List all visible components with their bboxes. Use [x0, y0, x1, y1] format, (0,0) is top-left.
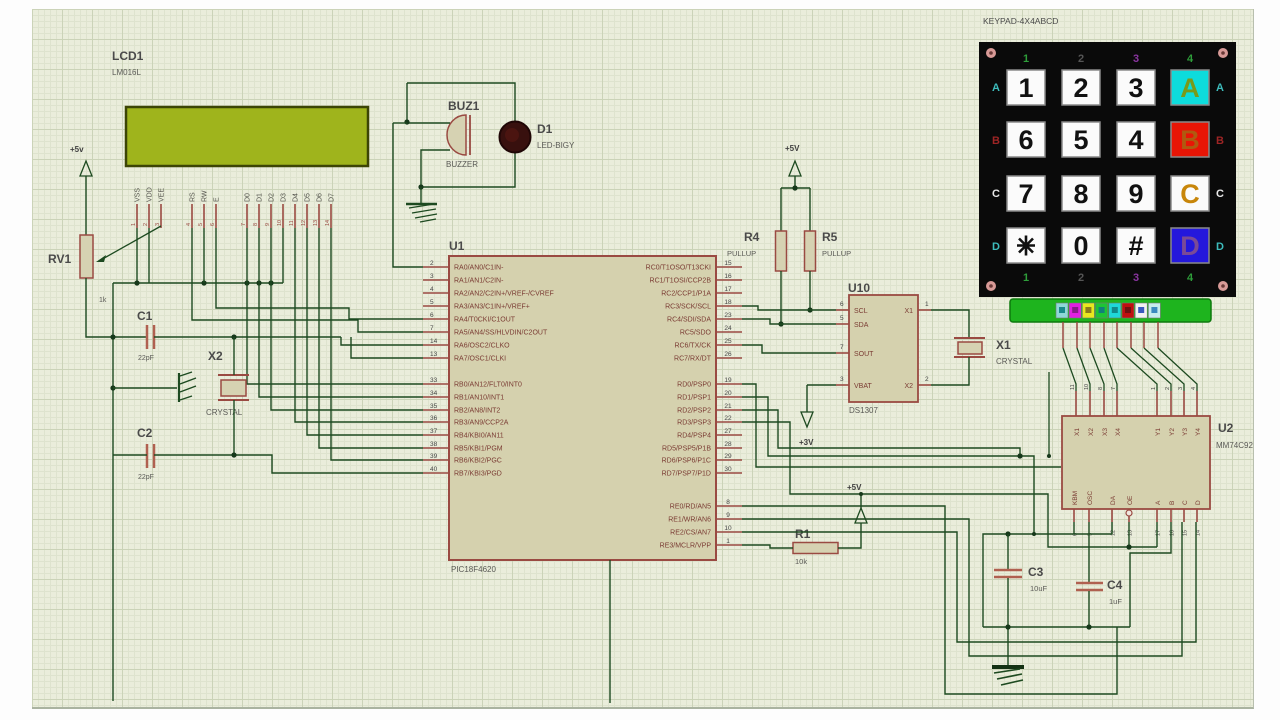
svg-text:D2: D2 [269, 193, 276, 202]
LCD1 pin 8 stub [258, 204, 260, 228]
wire U1 RC4 to U10 SDA [742, 319, 836, 324]
ground (left of X2) [113, 387, 177, 389]
R4 resistor body [776, 231, 787, 271]
keypad body [979, 42, 1236, 297]
wire LCD D4 to U1 RB3 [295, 228, 423, 422]
svg-text:RB1/AN10/INT1: RB1/AN10/INT1 [454, 395, 504, 402]
junction RD1 net [1032, 532, 1036, 536]
wire LCD D3 riser [282, 228, 284, 283]
svg-text:RW: RW [202, 190, 209, 202]
U1 left pin 33 (RB0/AN12/FLT0/INT0) [423, 383, 449, 385]
svg-text:A: A [992, 82, 1000, 94]
svg-text:CRYSTAL: CRYSTAL [206, 408, 243, 417]
wire U1 RE2 to U2 D [742, 522, 1196, 642]
wire LCD D2 to U1 RB2 [271, 228, 423, 410]
U2 top pin Y2 [1170, 391, 1172, 416]
U1 left pin 36 (RB3/AN9/CCP2A) [423, 421, 449, 423]
U1 right pin 18 (RC3/SCK/SCL) [716, 305, 742, 307]
connector pin 7 [1143, 322, 1145, 348]
wire +5v to RV1 [85, 176, 87, 235]
connector wire tag 8 [1148, 303, 1160, 318]
svg-text:RV1: RV1 [48, 252, 71, 266]
svg-text:#: # [1128, 231, 1143, 261]
wire U10 X1 to crystal [931, 310, 969, 338]
svg-text:Y2: Y2 [1169, 428, 1176, 436]
LCD1 pin 5 stub [203, 204, 205, 228]
U1 right pin 1 (RE3/MCLR/VPP) [716, 544, 742, 546]
svg-text:C: C [1180, 179, 1200, 209]
R1 resistor body [793, 543, 838, 554]
LCD1 pin 14 stub [330, 204, 332, 228]
svg-text:2: 2 [1078, 272, 1084, 284]
U10 pin 2 X2 [918, 384, 931, 386]
svg-text:B: B [1180, 125, 1200, 155]
keypad corner screw [1218, 48, 1228, 58]
svg-text:RB2/AN8/INT2: RB2/AN8/INT2 [454, 408, 500, 415]
svg-text:8: 8 [1098, 387, 1104, 390]
svg-text:RD1/PSP1: RD1/PSP1 [677, 395, 711, 402]
junction buzzer-gnd [418, 184, 423, 189]
connector pin 4 [1103, 322, 1105, 348]
svg-text:4: 4 [1191, 387, 1197, 390]
U10 pin 5 SDA [836, 323, 849, 325]
connector wire tag 5 [1109, 303, 1121, 318]
svg-text:D1: D1 [537, 122, 553, 136]
svg-text:RE1/WR/AN6: RE1/WR/AN6 [668, 517, 711, 524]
wire buzzer top-left [407, 83, 450, 123]
wire U1 RD2 to +3V rail [742, 410, 1020, 456]
svg-text:25: 25 [724, 338, 732, 345]
keypad key 5 [1062, 122, 1100, 157]
U10 pin 6 SCL [836, 309, 849, 311]
svg-text:PIC18F4620: PIC18F4620 [451, 565, 496, 574]
svg-text:Y4: Y4 [1195, 428, 1202, 436]
svg-text:7: 7 [1111, 387, 1117, 390]
svg-text:X1: X1 [996, 338, 1011, 352]
connector wire tag 3 [1082, 303, 1094, 318]
wire C3 bottom lead [1007, 578, 1009, 666]
svg-text:D5: D5 [305, 193, 312, 202]
keypad key 9 [1117, 176, 1155, 211]
wire U2 OE down [1128, 522, 1130, 547]
svg-text:PULLUP: PULLUP [822, 249, 851, 258]
svg-text:8: 8 [726, 499, 730, 506]
junction OE rail [1126, 544, 1131, 549]
svg-text:3: 3 [1133, 53, 1139, 65]
wire buzzer bottom [421, 150, 515, 187]
keypad key 0 [1062, 228, 1100, 263]
svg-text:4: 4 [430, 286, 434, 293]
U1 left pin 34 (RB1/AN10/INT1) [423, 396, 449, 398]
svg-text:RD4/PSP4: RD4/PSP4 [677, 433, 711, 440]
LCD1 pin 7 stub [246, 204, 248, 228]
wire U2 KBM down [1073, 522, 1075, 534]
wire connector pin 3 to U2 [1090, 348, 1104, 391]
wire RV1 bottom to C1 row [86, 278, 146, 337]
RV1 potentiometer body [80, 235, 93, 278]
junction C1-X2 [231, 334, 236, 339]
svg-text:3: 3 [1133, 272, 1139, 284]
junction C2-X2 [231, 452, 236, 457]
U1 right pin 15 (RC0/T1OSO/T13CKI) [716, 266, 742, 268]
junction D1-bus [256, 280, 261, 285]
LCD1 pin 13 stub [318, 204, 320, 228]
keypad corner screw [986, 281, 996, 291]
wire buzzer left link [393, 122, 407, 124]
svg-text:+5v: +5v [70, 145, 84, 154]
U1 left pin 2 (RA0/AN0/C1IN-) [423, 266, 449, 268]
U1 right pin 27 (RD4/PSP4) [716, 434, 742, 436]
wire bus left drop [112, 283, 114, 701]
wire LCD E to U1 [216, 228, 423, 319]
U10 pin 7 SOUT [836, 352, 849, 354]
wire buzzer left drop to U1 RA0 [393, 123, 423, 267]
wire U1 RC3 to U10 SCL [742, 306, 836, 310]
svg-text:7: 7 [840, 344, 844, 351]
svg-text:18: 18 [724, 299, 732, 306]
svg-text:27: 27 [724, 428, 732, 435]
svg-text:17: 17 [724, 286, 732, 293]
U2 bottom pin KBM [1073, 509, 1075, 522]
svg-text:2: 2 [143, 223, 149, 226]
svg-text:X1: X1 [1074, 428, 1081, 436]
svg-text:21: 21 [724, 403, 732, 410]
svg-text:8: 8 [253, 223, 259, 226]
svg-text:D7: D7 [329, 193, 336, 202]
svg-text:1: 1 [1018, 73, 1033, 103]
svg-text:MM74C92: MM74C92 [1216, 441, 1253, 450]
R5 resistor body [805, 231, 816, 271]
svg-text:6: 6 [430, 312, 434, 319]
svg-text:9: 9 [726, 512, 730, 519]
LCD1 pin 10 stub [282, 204, 284, 228]
wire connector pin 6 to U2 [1131, 348, 1171, 391]
connector wire tag 7 [1135, 303, 1147, 318]
keypad key C [1171, 176, 1209, 211]
+5V arrow terminal (bottom) [855, 508, 867, 523]
svg-text:X3: X3 [1102, 428, 1109, 436]
svg-text:RB7/KBI3/PGD: RB7/KBI3/PGD [454, 471, 502, 478]
svg-text:VEE: VEE [159, 188, 166, 202]
svg-text:U2: U2 [1218, 421, 1234, 435]
svg-text:6: 6 [1018, 125, 1033, 155]
U1 left pin 14 (RA6/OSC2/CLKO) [423, 344, 449, 346]
svg-text:2: 2 [1073, 73, 1088, 103]
wire under U1 [609, 560, 611, 703]
wire C3 top net [983, 534, 1112, 627]
svg-text:RD6/PSP6/P1C: RD6/PSP6/P1C [662, 458, 711, 465]
svg-text:RD5/PSP5/P1B: RD5/PSP5/P1B [662, 446, 711, 453]
U1 left pin 13 (RA7/OSC1/CLKI) [423, 357, 449, 359]
connector wire tag 1 [1056, 303, 1068, 318]
svg-text:2: 2 [430, 260, 434, 267]
keypad corner screw [986, 48, 996, 58]
keypad key B [1171, 122, 1209, 157]
LCD1 pin 11 stub [294, 204, 296, 228]
svg-text:22pF: 22pF [138, 355, 154, 362]
svg-text:11: 11 [289, 220, 295, 226]
wire U1 RE3 to R1 [742, 545, 793, 548]
svg-text:SOUT: SOUT [854, 351, 874, 358]
svg-text:RD7/PSP7/P1D: RD7/PSP7/P1D [662, 471, 711, 478]
U1 right pin 29 (RD6/PSP6/P1C) [716, 459, 742, 461]
svg-text:10: 10 [277, 220, 283, 226]
svg-text:D6: D6 [317, 193, 324, 202]
svg-text:10uF: 10uF [1030, 584, 1048, 593]
LCD1 pin 1 stub [136, 204, 138, 228]
svg-text:RC2/CCP1/P1A: RC2/CCP1/P1A [661, 291, 711, 298]
svg-text:23: 23 [724, 312, 732, 319]
wire connector pin 4 to U2 [1104, 348, 1117, 391]
svg-text:39: 39 [430, 453, 438, 460]
svg-text:RB4/KBI0/AN11: RB4/KBI0/AN11 [454, 433, 504, 440]
svg-text:D: D [1195, 500, 1202, 505]
U2 bottom pin OSC [1088, 509, 1090, 522]
U1 left pin 7 (RA5/AN4/SS/HLVDIN/C2OUT) [423, 331, 449, 333]
svg-text:X4: X4 [1115, 428, 1122, 436]
C1 capacitor plates [147, 325, 154, 349]
LCD1 pin 4 stub [191, 204, 193, 228]
junction bus-gnd [110, 385, 115, 390]
wire X2 top lead [233, 337, 235, 375]
D1 LED body [500, 122, 531, 153]
svg-text:RA4/T0CKI/C1OUT: RA4/T0CKI/C1OUT [454, 317, 516, 324]
keypad key # [1117, 228, 1155, 263]
U2 bottom pin OE [1128, 509, 1130, 510]
svg-text:RC1/T1OSI/CCP2B: RC1/T1OSI/CCP2B [650, 278, 712, 285]
svg-text:RC0/T1OSO/T13CKI: RC0/T1OSO/T13CKI [646, 265, 711, 272]
svg-text:22pF: 22pF [138, 474, 154, 481]
junction C4 bottom [1086, 624, 1091, 629]
U1 left pin 38 (RB5/KBI1/PGM) [423, 447, 449, 449]
svg-text:RB6/KBI2/PGC: RB6/KBI2/PGC [454, 458, 502, 465]
svg-text:13: 13 [313, 220, 319, 226]
svg-text:OE: OE [1127, 495, 1134, 505]
wire U1 RE1 to U2 C [742, 519, 1182, 656]
svg-text:VDD: VDD [147, 187, 154, 202]
svg-text:A: A [1216, 82, 1224, 94]
U10 pin 1 X1 [918, 309, 931, 311]
U1 left pin 6 (RA4/T0CKI/C1OUT) [423, 318, 449, 320]
svg-text:D: D [1180, 231, 1200, 261]
svg-text:11: 11 [1070, 384, 1076, 390]
svg-text:E: E [214, 197, 221, 202]
ground (bottom right) [992, 665, 1024, 669]
keypad corner screw [1218, 281, 1228, 291]
svg-text:RE2/CS/AN7: RE2/CS/AN7 [670, 530, 711, 537]
wire R4 top [780, 188, 782, 231]
U2 top pin X4 [1116, 391, 1118, 416]
wire LCD ground bus [113, 282, 283, 284]
junction R4-SDA [778, 321, 783, 326]
svg-text:X1: X1 [904, 308, 913, 315]
svg-text:5: 5 [430, 299, 434, 306]
svg-text:CRYSTAL: CRYSTAL [996, 357, 1033, 366]
svg-text:20: 20 [724, 390, 732, 397]
keypad connector strip [1010, 299, 1211, 322]
wire LCD D1 to U1 RB1 [259, 228, 423, 397]
BUZ1 buzzer body [447, 115, 466, 155]
U2 bottom pin D [1196, 509, 1198, 522]
junction buzzer-left [404, 119, 409, 124]
wire crystal to U10 X2 [931, 357, 969, 385]
svg-text:RC5/SDO: RC5/SDO [680, 330, 712, 337]
U1 PIC18F4620 body [449, 256, 716, 560]
svg-text:2: 2 [1165, 387, 1171, 390]
svg-text:KBM: KBM [1072, 491, 1079, 505]
keypad key 2 [1062, 70, 1100, 105]
svg-text:RB5/KBI1/PGM: RB5/KBI1/PGM [454, 446, 503, 453]
keypad key 4 [1117, 122, 1155, 157]
wire connector pin 8 to U2 [1158, 348, 1197, 391]
wire C3 top lead [1007, 534, 1009, 569]
svg-text:D3: D3 [281, 193, 288, 202]
junction R5-SCL [807, 307, 812, 312]
svg-text:D4: D4 [293, 193, 300, 202]
svg-text:KEYPAD-4X4ABCD: KEYPAD-4X4ABCD [983, 16, 1058, 26]
svg-text:LM016L: LM016L [112, 68, 141, 77]
junction rail merge [1017, 453, 1022, 458]
wire LCD VSS down [136, 228, 138, 283]
svg-text:VBAT: VBAT [854, 383, 872, 390]
U1 right pin 20 (RD1/PSP1) [716, 396, 742, 398]
U2 body [1062, 416, 1210, 509]
LCD1 pin 6 stub [215, 204, 217, 228]
svg-text:7: 7 [241, 223, 247, 226]
svg-text:1k: 1k [99, 297, 107, 304]
C3 capacitor plates [994, 570, 1022, 577]
svg-text:RA6/OSC2/CLKO: RA6/OSC2/CLKO [454, 343, 510, 350]
svg-text:D0: D0 [245, 193, 252, 202]
svg-text:15: 15 [724, 260, 732, 267]
keypad key 3 [1117, 70, 1155, 105]
svg-text:33: 33 [430, 377, 438, 384]
junction fan stub [1047, 454, 1051, 458]
svg-text:R1: R1 [795, 527, 811, 541]
U1 right pin 30 (RD7/PSP7/P1D) [716, 472, 742, 474]
svg-text:U10: U10 [848, 281, 870, 295]
keypad key 7 [1007, 176, 1045, 211]
U1 left pin 4 (RA2/AN2/C2IN+/VREF-/CVREF) [423, 292, 449, 294]
svg-text:RC6/TX/CK: RC6/TX/CK [674, 343, 711, 350]
svg-text:10k: 10k [795, 557, 807, 566]
svg-text:LCD1: LCD1 [112, 49, 144, 63]
keypad key 8 [1062, 176, 1100, 211]
wire U2 DA down [1111, 522, 1113, 534]
RV1 wiper arrow [99, 226, 161, 261]
svg-text:3: 3 [155, 223, 161, 226]
svg-text:B: B [1169, 501, 1176, 505]
svg-text:4: 4 [1187, 272, 1194, 284]
U1 right pin 16 (RC1/T1OSI/CCP2B) [716, 279, 742, 281]
svg-text:1uF: 1uF [1109, 597, 1122, 606]
svg-text:RA1/AN1/C2IN-: RA1/AN1/C2IN- [454, 278, 504, 285]
svg-text:3: 3 [430, 273, 434, 280]
svg-text:B: B [1216, 135, 1224, 147]
U1 right pin 19 (RD0/PSP0) [716, 383, 742, 385]
U1 left pin 3 (RA1/AN1/C2IN-) [423, 279, 449, 281]
U2 top pin Y4 [1196, 391, 1198, 416]
svg-text:38: 38 [430, 441, 438, 448]
svg-text:RB0/AN12/FLT0/INT0: RB0/AN12/FLT0/INT0 [454, 382, 522, 389]
U2 top pin X2 [1089, 391, 1091, 416]
svg-text:RA3/AN3/C1IN+/VREF+: RA3/AN3/C1IN+/VREF+ [454, 304, 530, 311]
LCD1 pin 3 stub [160, 204, 162, 228]
svg-text:7: 7 [430, 325, 434, 332]
U1 left pin 40 (RB7/KBI3/PGD) [423, 472, 449, 474]
svg-text:22: 22 [724, 415, 732, 422]
svg-text:6: 6 [840, 301, 844, 308]
junction D2-bus [268, 280, 273, 285]
connector pin 2 [1076, 322, 1078, 348]
wire U1 RD3 to +5V rail [742, 422, 1157, 547]
wire X2 to U1 OSC2 [341, 337, 423, 345]
U2 top pin X1 [1075, 391, 1077, 416]
svg-text:RE0/RD/AN5: RE0/RD/AN5 [670, 504, 711, 511]
svg-text:7: 7 [1018, 179, 1033, 209]
connector pin 1 [1062, 322, 1064, 348]
wire R5 bottom to SCL [809, 271, 811, 310]
svg-text:4: 4 [1128, 125, 1143, 155]
svg-text:16: 16 [724, 273, 732, 280]
U1 right pin 28 (RD5/PSP5/P1B) [716, 447, 742, 449]
svg-text:1: 1 [726, 538, 730, 545]
svg-text:26: 26 [724, 351, 732, 358]
wire X2 bottom lead [233, 400, 235, 455]
svg-text:19: 19 [724, 377, 732, 384]
svg-text:PULLUP: PULLUP [727, 249, 756, 258]
svg-text:37: 37 [430, 428, 438, 435]
U2 bottom pin A [1156, 509, 1158, 522]
svg-text:RA2/AN2/C2IN+/VREF-/CVREF: RA2/AN2/C2IN+/VREF-/CVREF [454, 291, 554, 298]
U2 bottom pin DA [1111, 509, 1113, 522]
svg-text:OSC: OSC [1087, 491, 1094, 505]
svg-text:1: 1 [1023, 272, 1029, 284]
svg-text:1: 1 [925, 301, 929, 308]
svg-text:2: 2 [1078, 53, 1084, 65]
svg-text:29: 29 [724, 453, 732, 460]
wire connector pin 5 to U2 [1117, 348, 1157, 391]
svg-text:VSS: VSS [135, 188, 142, 202]
keypad key 1 [1007, 70, 1045, 105]
C4 capacitor plates [1076, 583, 1103, 590]
wire +5V to R4 R5 [794, 176, 796, 188]
svg-text:SCL: SCL [854, 308, 868, 315]
wire LCD RW down [203, 228, 205, 283]
U1 left pin 37 (RB4/KBI0/AN11) [423, 434, 449, 436]
junction D0-bus [244, 280, 249, 285]
svg-text:BUZZER: BUZZER [446, 160, 478, 169]
svg-text:RC7/RX/DT: RC7/RX/DT [674, 356, 712, 363]
svg-text:U1: U1 [449, 239, 465, 253]
svg-text:RC4/SDI/SDA: RC4/SDI/SDA [667, 317, 711, 324]
ground (below buzzer) [406, 203, 437, 205]
U2 bottom pin C [1183, 509, 1185, 522]
svg-text:D: D [1216, 241, 1224, 253]
wire U1 RD1 long to U2 area [742, 397, 1034, 534]
wire LCD D0 to U1 RB0 [247, 228, 423, 384]
svg-text:5: 5 [840, 315, 844, 322]
wire connector pin 1 to U2 [1063, 348, 1076, 391]
X1 crystal symbol [954, 338, 985, 357]
svg-text:RB3/AN9/CCP2A: RB3/AN9/CCP2A [454, 420, 509, 427]
wire fan stub down [1048, 372, 1050, 456]
U1 right pin 9 (RE1/WR/AN6) [716, 518, 742, 520]
keypad key 6 [1007, 122, 1045, 157]
wire U2 A down [1156, 522, 1158, 547]
svg-text:B: B [992, 135, 1000, 147]
wire connector pin 2 to U2 [1077, 348, 1090, 391]
